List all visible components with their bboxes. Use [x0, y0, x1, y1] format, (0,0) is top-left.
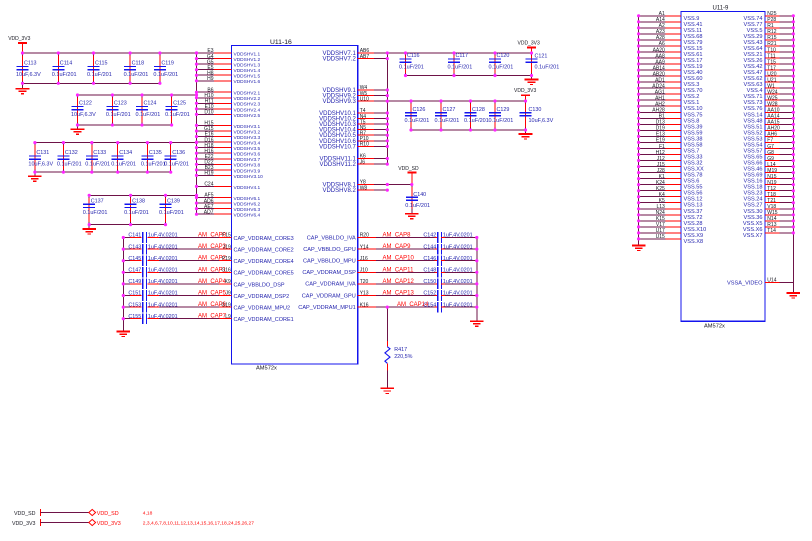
svg-text:CAP_VDDRAM_DSP: CAP_VDDRAM_DSP	[302, 270, 356, 276]
capacitor C127	[435, 101, 460, 130]
svg-text:C115: C115	[95, 61, 108, 67]
svg-text:VDD_SD: VDD_SD	[398, 166, 419, 172]
svg-text:VDDSHV1.6: VDDSHV1.6	[234, 79, 261, 85]
svg-text:VSS.13: VSS.13	[684, 203, 703, 209]
pin R21 VSS.64 of U11-9	[744, 41, 794, 52]
svg-text:VDD_3V3: VDD_3V3	[8, 36, 30, 42]
capacitor C114	[52, 53, 77, 83]
capacitor C115	[87, 53, 112, 83]
svg-text:0.1uF/201: 0.1uF/201	[165, 112, 190, 118]
svg-text:0.1uF/201: 0.1uF/201	[87, 72, 112, 78]
pin A6 VSS.15 of U11-9	[639, 41, 703, 52]
svg-text:P28: P28	[767, 17, 776, 23]
pin K9 CAP_VBBLDO_DSP of U11-16 / node AM_CAP4	[198, 279, 285, 288]
svg-text:VDDSHV2.2: VDDSHV2.2	[234, 96, 261, 102]
svg-text:0.1uF/201: 0.1uF/201	[464, 118, 489, 124]
svg-text:C146: C146	[423, 256, 436, 262]
pin T14 VSS.X7 of U11-9	[743, 228, 793, 239]
pin H10 VDDSHV2.2 of U11-16	[197, 93, 261, 102]
svg-text:Y14: Y14	[360, 244, 369, 250]
svg-text:U21: U21	[767, 77, 776, 83]
svg-text:C143: C143	[128, 244, 141, 250]
capacitor C132	[57, 143, 82, 173]
capacitor C154	[376, 302, 477, 313]
svg-text:R20: R20	[360, 233, 369, 239]
pin U21 VSS.63 of U11-9	[744, 77, 794, 88]
resistor R417	[385, 341, 413, 370]
pin AH20 VSS.52 of U11-9	[744, 126, 794, 137]
pin H16 VDDSHV3.6 of U11-16	[197, 148, 261, 157]
pin F15 CAP_VDDRAM_CORE3 of U11-16 / node AM_CAP0	[198, 233, 294, 242]
svg-text:C154: C154	[423, 302, 436, 308]
svg-text:VDDSHV4.1: VDDSHV4.1	[234, 185, 261, 191]
svg-text:VDDSHV3.1: VDDSHV3.1	[234, 124, 261, 130]
pin P28 VSS.77 of U11-9	[744, 17, 794, 28]
svg-text:VDDSHV2.4: VDDSHV2.4	[234, 107, 261, 113]
pin H12 VSS.33 of U11-9	[639, 150, 703, 161]
svg-text:C24: C24	[204, 182, 213, 188]
svg-text:10uF,6.3V: 10uF,6.3V	[71, 112, 96, 118]
node VDD_3V3 off-page connector	[12, 519, 254, 527]
svg-text:VDDSHV3.8: VDDSHV3.8	[234, 163, 261, 169]
svg-text:C114: C114	[60, 61, 73, 67]
svg-text:C140: C140	[413, 192, 426, 198]
pin J15 VSS.XX of U11-9	[639, 162, 704, 173]
pin U14 VSSA_VIDEO of U11-9	[727, 278, 793, 287]
capacitor C147	[123, 267, 219, 278]
ground	[405, 214, 419, 219]
svg-text:H9: H9	[207, 76, 214, 82]
svg-text:VSS.63: VSS.63	[744, 82, 763, 88]
pin R15 VSS.43 of U11-9	[744, 35, 794, 46]
svg-text:K15: K15	[656, 216, 665, 222]
capacitor C135	[141, 143, 166, 173]
pin B6 VDDSHV2.1 of U11-16	[197, 87, 261, 96]
svg-text:C135: C135	[149, 150, 162, 156]
svg-text:U11-16: U11-16	[270, 39, 292, 46]
pin D22 VDDSHV3.8 of U11-16	[197, 160, 261, 169]
svg-text:C150: C150	[423, 279, 436, 285]
wire ground rail row4	[89, 224, 165, 226]
svg-text:C144: C144	[423, 244, 436, 250]
pin AA14 VSS.48 of U11-9	[744, 114, 794, 125]
svg-text:VDD_SD: VDD_SD	[97, 511, 119, 517]
pin AH6 VSS.53 of U11-9	[744, 132, 794, 143]
pin K16 CAP_VDDRAM_MPU1 of U11-16 / node AM_CAP14	[298, 302, 429, 311]
wire VDD_3V3 rail row2	[78, 94, 197, 96]
ground	[16, 83, 30, 94]
ground	[787, 293, 801, 298]
pin K6 VDDSHV11.1 of U11-16	[320, 154, 388, 163]
pin R13 VSS.X6 of U11-9	[743, 222, 793, 233]
pin A23 VSS.68 of U11-9	[639, 29, 703, 40]
svg-text:C153: C153	[128, 302, 141, 308]
pin T20 CAP_VDDRAM_IVA of U11-16 / node AM_CAP12	[305, 279, 414, 288]
pin C24 VDDSHV4.1 of U11-16	[197, 182, 261, 191]
pin N5 VDDSHV10.4 of U11-16	[319, 125, 387, 134]
svg-text:0.1uF/201: 0.1uF/201	[52, 72, 77, 78]
pin T18 VSS.24 of U11-9	[744, 192, 794, 203]
svg-text:CAP_VDDRAM_CORE1: CAP_VDDRAM_CORE1	[234, 317, 294, 323]
pin H19 VDDSHV3.10 of U11-16	[197, 171, 264, 180]
pin G8 VSS.65 of U11-9	[744, 150, 794, 161]
pin H9 VDDSHV1.6 of U11-16	[197, 76, 261, 85]
pin J10 CAP_VDDRAM_DSP of U11-16 / node AM_CAP11	[302, 267, 414, 276]
svg-text:K24: K24	[656, 180, 665, 186]
svg-text:AD1: AD1	[655, 77, 665, 83]
svg-text:0.1uF/201: 0.1uF/201	[164, 162, 189, 168]
svg-text:C116: C116	[407, 53, 420, 59]
pin AA8 VSS.17 of U11-9	[639, 53, 703, 64]
svg-text:VDDSHV2.3: VDDSHV2.3	[234, 102, 261, 108]
svg-text:C128: C128	[472, 107, 485, 113]
pin AD6 VDDSHV6.2 of U11-16	[197, 198, 261, 207]
svg-text:U15: U15	[656, 234, 665, 240]
pin N19 VSS.18 of U11-9	[744, 180, 794, 191]
svg-text:VSS.66: VSS.66	[744, 161, 763, 167]
svg-text:C147: C147	[128, 268, 141, 274]
pin AA15 VSS.51 of U11-9	[744, 120, 794, 131]
svg-text:220,5%: 220,5%	[394, 354, 412, 360]
pin N15 VSS.16 of U11-9	[744, 174, 794, 185]
svg-text:AA15: AA15	[767, 120, 779, 126]
svg-text:K9: K9	[225, 279, 231, 285]
svg-text:W28: W28	[767, 102, 778, 108]
svg-text:0.1uF/201: 0.1uF/201	[159, 210, 184, 216]
pin AD7 VDDSHV6.4 of U11-16	[197, 209, 261, 218]
capacitor C149	[123, 279, 219, 290]
pin U20 VSS.62 of U11-9	[744, 71, 794, 82]
pin U17 VSS.X9 of U11-9	[639, 228, 703, 239]
wire ground rail row1	[23, 82, 160, 84]
svg-text:C138: C138	[132, 199, 145, 205]
svg-text:0.1uF/201: 0.1uF/201	[448, 65, 473, 71]
pin E13 VSS.38 of U11-9	[639, 132, 703, 143]
svg-text:G19: G19	[221, 302, 231, 308]
svg-text:CAP_VBBLDO_MPU: CAP_VBBLDO_MPU	[303, 259, 356, 265]
pin T12 VSS.23 of U11-9	[744, 186, 794, 197]
svg-text:AM572x: AM572x	[704, 323, 725, 329]
pin T15 VSS.42 of U11-9	[744, 59, 794, 70]
pin AH28 VSS.75 of U11-9	[639, 108, 703, 119]
pin AB6 VDDSHV7.1 of U11-16	[322, 48, 387, 57]
svg-text:C137: C137	[91, 199, 104, 205]
pin W8 VDDSHV8.2 of U11-16	[322, 185, 387, 194]
svg-text:C131: C131	[36, 150, 49, 156]
pin R10 VDDSHV10.7 of U11-16	[319, 142, 387, 151]
svg-text:VDDSHV1.3: VDDSHV1.3	[234, 63, 261, 69]
svg-text:VDDSHV3.7: VDDSHV3.7	[234, 157, 261, 163]
svg-text:C122: C122	[79, 101, 92, 107]
pin N14 VSS.X5 of U11-9	[743, 216, 793, 227]
op-amp U11-16 body	[232, 39, 358, 371]
pin E22 VDDSHV3.7 of U11-16	[197, 154, 261, 163]
svg-text:T21: T21	[767, 198, 776, 204]
svg-text:C134: C134	[119, 150, 132, 156]
pin T10 VSS.21 of U11-9	[744, 47, 794, 58]
svg-text:VSS.79: VSS.79	[684, 40, 703, 46]
svg-text:0.1uF/201: 0.1uF/201	[136, 112, 161, 118]
capacitor C116	[399, 53, 424, 76]
pin W25 VSS.73 of U11-9	[744, 96, 794, 107]
pin D16 VDDSHV3.4 of U11-16	[197, 137, 261, 146]
pin E16 VDDSHV3.3 of U11-16	[197, 132, 261, 141]
svg-text:C125: C125	[173, 101, 186, 107]
svg-text:AM_CAP5: AM_CAP5	[198, 291, 227, 297]
svg-text:A6: A6	[659, 41, 665, 47]
pin J28 VSS.78 of U11-9	[639, 168, 703, 179]
svg-text:CAP_VDDRAM_CORE3: CAP_VDDRAM_CORE3	[234, 236, 294, 242]
svg-text:AM_CAP4: AM_CAP4	[198, 279, 227, 285]
wire VSS bus right of U11-9	[792, 16, 794, 293]
svg-text:0.1uF/201: 0.1uF/201	[489, 118, 514, 124]
pin R1 VSS.5 of U11-9	[747, 23, 794, 34]
wire VDD_3V3 bus right of U11-16	[386, 53, 388, 164]
svg-text:C121: C121	[535, 53, 548, 59]
pin Y8 VDDSHV8.1 of U11-16	[322, 180, 387, 189]
pin AA20 VSS.61 of U11-9	[639, 47, 703, 58]
pin K1 VSS.6 of U11-9	[639, 174, 700, 185]
wire ground rail row2	[78, 124, 172, 126]
svg-text:0.1uF/201: 0.1uF/201	[399, 65, 424, 71]
svg-text:VSS.43: VSS.43	[744, 40, 763, 46]
capacitor C133	[85, 143, 110, 173]
pin W5 VDDSHV9.2 of U11-16	[322, 91, 387, 100]
wire VDD_3V3 rail row4	[89, 194, 196, 196]
svg-text:10uF,6.3V: 10uF,6.3V	[16, 72, 41, 78]
svg-text:C152: C152	[423, 291, 436, 297]
capacitor C155	[123, 313, 219, 324]
pin F1 VSS.7 of U11-9	[639, 144, 700, 155]
svg-text:0.1uF/201: 0.1uF/201	[83, 210, 108, 216]
pin AA10 VSS.14 of U11-9	[744, 108, 794, 119]
wire ground bus left caps	[122, 238, 124, 332]
svg-text:VDDSHV3.2: VDDSHV3.2	[234, 129, 261, 135]
ground	[82, 225, 96, 234]
pin J19 CAP_VDDRAM_CORE2 of U11-16 / node AM_CAP3	[198, 244, 294, 253]
pin J9 CAP_VDDRAM_DSP2 of U11-16 / node AM_CAP5	[198, 291, 289, 300]
pin AG1 VSS.2 of U11-9	[639, 90, 700, 101]
pin AB7 VDDSHV7.2 of U11-16	[322, 54, 387, 63]
pin B1 VSS.8 of U11-9	[639, 114, 700, 125]
pin AA9 VSS.19 of U11-9	[639, 59, 703, 70]
svg-text:VSS.27: VSS.27	[744, 203, 763, 209]
svg-text:VDDSHV1.4: VDDSHV1.4	[234, 68, 261, 74]
pin AE7 VDDSHV6.3 of U11-16	[197, 204, 261, 213]
svg-text:VSS.X5: VSS.X5	[743, 221, 763, 227]
pin E10 VDDSHV2.4 of U11-16	[197, 104, 261, 113]
pin K24 VSS.55 of U11-9	[639, 180, 703, 191]
pin D19 VSS.59 of U11-9	[639, 126, 703, 137]
pin H8 VDDSHV1.5 of U11-16	[197, 70, 261, 79]
svg-text:N19: N19	[767, 180, 776, 186]
pin W1 VSS.4 of U11-9	[747, 84, 794, 95]
svg-text:VDDSHV3.10: VDDSHV3.10	[234, 174, 264, 180]
capacitor C126	[405, 101, 430, 130]
svg-text:VSS.28: VSS.28	[684, 221, 703, 227]
pin AH2 VSS.10 of U11-9	[639, 102, 703, 113]
svg-text:10uF,6.3V: 10uF,6.3V	[529, 118, 554, 124]
svg-text:C123: C123	[114, 101, 127, 107]
pin V17 VSS.X10 of U11-9	[639, 222, 707, 233]
capacitor C139	[159, 195, 184, 224]
pin G16 CAP_VDDRAM_CORE5 of U11-16 / node AM_CAP1	[198, 267, 294, 276]
pin T11 VSS.26 of U11-9	[744, 53, 794, 64]
wire VSS bus left of U11-9	[638, 16, 640, 246]
capacitor C153	[123, 302, 219, 313]
wire AM_CAP14 to R417	[386, 307, 388, 341]
wire ground rail rowB	[411, 129, 526, 131]
svg-text:0.1uF/201: 0.1uF/201	[535, 65, 560, 71]
pin W28 VSS.76 of U11-9	[744, 102, 794, 113]
svg-text:W8: W8	[360, 185, 368, 191]
pin L9 CAP_VDDRAM_CORE1 of U11-16 / node AM_CAP7	[198, 314, 294, 323]
wire VDD_3V3 rail row3	[35, 142, 197, 144]
svg-text:4,18: 4,18	[143, 511, 153, 517]
capacitor C125	[165, 95, 190, 125]
pin Y14 CAP_VBBLDO_GPU of U11-16 / node AM_CAP9	[303, 244, 411, 253]
pin J6 VDDSHV11.2 of U11-16	[320, 159, 388, 168]
pin K5 VSS.13 of U11-9	[639, 198, 703, 209]
pin AD1 VSS.3 of U11-9	[639, 77, 700, 88]
svg-text:0.1uF/201: 0.1uF/201	[435, 118, 460, 124]
pin W15 VSS.36 of U11-9	[744, 210, 794, 221]
pin T17 VSS.47 of U11-9	[744, 65, 794, 76]
svg-text:C141: C141	[128, 233, 141, 239]
capacitor C129	[489, 101, 514, 130]
ground	[117, 332, 131, 337]
pin K15 VSS.28 of U11-9	[639, 216, 703, 227]
svg-text:10uF,6.3V: 10uF,6.3V	[28, 162, 53, 168]
capacitor C123	[106, 95, 131, 125]
svg-text:C136: C136	[172, 150, 185, 156]
pin Y13 CAP_VDDRAM_GPU of U11-16 / node AM_CAP13	[302, 291, 415, 300]
svg-text:C155: C155	[128, 314, 141, 320]
svg-text:VSS.3: VSS.3	[684, 82, 700, 88]
power VDD_3V3	[8, 36, 30, 53]
svg-text:C133: C133	[93, 150, 106, 156]
pin D13 VSS.39 of U11-9	[639, 120, 703, 131]
pin H11 VDDSHV2.3 of U11-16	[197, 99, 261, 108]
svg-text:VSSA_VIDEO: VSSA_VIDEO	[727, 281, 763, 287]
svg-text:VSS.18: VSS.18	[744, 185, 763, 191]
pin K25 VSS.56 of U11-9	[639, 186, 703, 197]
svg-text:VDDSHV1.2: VDDSHV1.2	[234, 57, 261, 63]
svg-text:2,3,4,6,7,8,10,11,12,13,14,15,: 2,3,4,6,7,8,10,11,12,13,14,15,16,17,18,2…	[143, 521, 254, 527]
pin F7 VSS.54 of U11-9	[744, 138, 794, 149]
svg-text:F7: F7	[767, 138, 773, 144]
svg-text:0.1uF/201: 0.1uF/201	[124, 210, 149, 216]
capacitor C146	[376, 255, 477, 266]
capacitor C120	[489, 53, 514, 76]
ground	[632, 246, 646, 251]
pin W24 VSS.71 of U11-9	[744, 90, 794, 101]
svg-text:0.1uF/201: 0.1uF/201	[489, 65, 514, 71]
svg-text:J12: J12	[657, 156, 665, 162]
capacitor C151	[123, 290, 219, 301]
svg-text:VSS.51: VSS.51	[744, 124, 763, 130]
pin E19 VSS.58 of U11-9	[639, 138, 703, 149]
svg-text:C119: C119	[161, 61, 174, 67]
svg-text:0.1uF/201: 0.1uF/201	[153, 72, 178, 78]
pin L14 VSS.46 of U11-9	[744, 162, 794, 173]
capacitor C131	[28, 143, 53, 173]
pin E3 VDDSHV1.1 of U11-16	[197, 48, 261, 57]
pin V18 VSS.30 of U11-9	[744, 204, 794, 215]
svg-text:0.1uF/201: 0.1uF/201	[57, 162, 82, 168]
svg-text:C127: C127	[443, 107, 456, 113]
svg-text:C139: C139	[167, 199, 180, 205]
capacitor C130	[520, 101, 554, 130]
svg-text:VDD_3V3: VDD_3V3	[518, 40, 540, 46]
svg-text:C129: C129	[497, 107, 510, 113]
svg-text:VDDSHV10.7: VDDSHV10.7	[319, 144, 356, 150]
capacitor C144	[376, 244, 477, 255]
pin K4 VSS.12 of U11-9	[639, 192, 703, 203]
capacitor C148	[376, 267, 477, 278]
svg-text:VSS.19: VSS.19	[684, 64, 703, 70]
wire ground rail row3	[35, 171, 171, 173]
svg-text:VSS.42: VSS.42	[744, 64, 763, 70]
svg-text:AA9: AA9	[655, 59, 665, 65]
svg-text:VSS.41: VSS.41	[684, 22, 703, 28]
svg-text:0.1uF/201: 0.1uF/201	[85, 162, 110, 168]
pin G9 VSS.66 of U11-9	[744, 156, 794, 167]
capacitor C121	[526, 53, 560, 76]
capacitor C150	[376, 279, 477, 290]
ground	[525, 76, 539, 85]
capacitor C137	[83, 195, 108, 224]
svg-text:VDD_3V3: VDD_3V3	[514, 88, 536, 94]
capacitor C128	[464, 101, 489, 130]
svg-text:C151: C151	[128, 291, 141, 297]
svg-text:N14: N14	[767, 216, 776, 222]
svg-text:CAP_VDDRAM_CORE2: CAP_VDDRAM_CORE2	[234, 248, 294, 254]
wire ground bus right caps	[476, 238, 478, 322]
svg-text:CAP_VDDRAM_MPU1: CAP_VDDRAM_MPU1	[298, 305, 356, 311]
wire VDD_3V3 rail rowA	[387, 52, 531, 54]
pin W4 VDDSHV9.1 of U11-16	[322, 85, 387, 94]
capacitor C140	[405, 185, 430, 214]
svg-text:G16: G16	[221, 268, 231, 274]
svg-text:VSS.32: VSS.32	[684, 161, 703, 167]
capacitor C136	[164, 143, 189, 173]
pin N25 VSS.74 of U11-9	[744, 11, 794, 22]
pin B23 VDDSHV3.9 of U11-16	[197, 165, 261, 174]
pin G4 VDDSHV1.2 of U11-16	[197, 54, 261, 63]
svg-text:VSS.77: VSS.77	[744, 22, 763, 28]
svg-text:E19: E19	[656, 138, 665, 144]
svg-text:A14: A14	[656, 17, 665, 23]
svg-text:D10: D10	[204, 110, 213, 116]
svg-text:0.1uF/201: 0.1uF/201	[405, 203, 430, 209]
pin H15 VDDSHV3.1 of U11-16	[197, 121, 261, 130]
pin G7 VSS.57 of U11-9	[744, 144, 794, 155]
wire junction dots	[21, 14, 795, 320]
svg-text:VDDSHV3.5: VDDSHV3.5	[234, 146, 261, 152]
svg-text:R417: R417	[394, 347, 407, 353]
svg-text:VSS.54: VSS.54	[744, 142, 763, 148]
svg-text:VDDSHV6.2: VDDSHV6.2	[234, 202, 261, 208]
pin E5 VDDSHV1.4 of U11-16	[197, 65, 261, 74]
svg-text:K16: K16	[360, 302, 369, 308]
capacitor C145	[123, 255, 219, 266]
ground	[28, 172, 42, 181]
svg-text:J16: J16	[360, 256, 368, 262]
svg-text:T15: T15	[767, 59, 776, 65]
capacitor C134	[111, 143, 136, 173]
svg-text:VDDSHV2.5: VDDSHV2.5	[234, 113, 261, 119]
